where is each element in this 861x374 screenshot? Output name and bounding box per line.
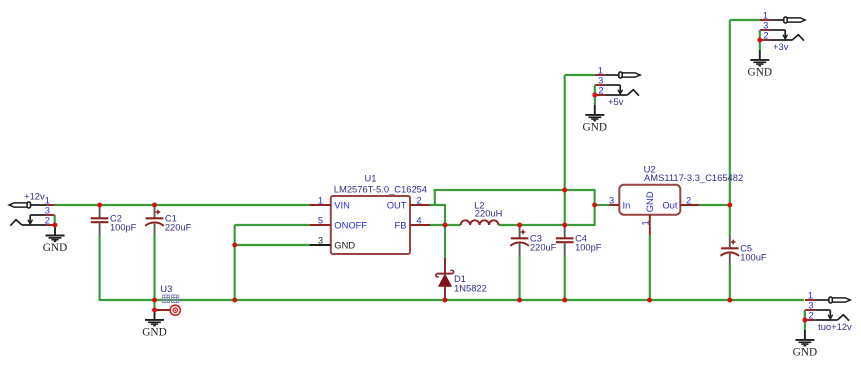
junction U1 gnd tee bbox=[232, 243, 237, 248]
junction left vertical rail bbox=[232, 298, 237, 303]
inductor L2 220uH bbox=[461, 220, 499, 225]
junction bypass crossing bbox=[562, 188, 567, 193]
ground at U3 pad bbox=[142, 310, 166, 338]
svg-text:5: 5 bbox=[318, 214, 323, 225]
connector J-out barrel jack bbox=[805, 297, 850, 321]
wire C1 bottom through rail to pad node bbox=[153, 235, 155, 310]
U1 pin 5 ONOFF stub bbox=[310, 224, 331, 226]
J-5v pin 1 stub bbox=[595, 74, 605, 76]
junction C4 rail bbox=[562, 298, 567, 303]
J-in pin 2 stub and contact bbox=[46, 224, 54, 226]
svg-text:AMS1117-3.3_C165482: AMS1117-3.3_C165482 bbox=[644, 172, 743, 183]
wire C4 bottom to rail bbox=[564, 255, 566, 300]
junction C4 top bbox=[562, 223, 567, 228]
svg-text:2: 2 bbox=[763, 30, 768, 41]
wire left vertical down to ground rail bbox=[234, 225, 236, 300]
J-5v pin 2 stub and contact bbox=[595, 94, 605, 96]
J-in pin 1 stub bbox=[46, 204, 54, 206]
svg-text:GND: GND bbox=[748, 66, 772, 78]
U1 pin 1 VIN stub bbox=[310, 204, 331, 206]
U1 pin 3 GND stub bbox=[310, 244, 331, 246]
wire +5v horizontal to jack bbox=[565, 74, 595, 76]
svg-text:100pF: 100pF bbox=[575, 243, 602, 253]
J-5v pin 3 stub and switch bracket bbox=[595, 84, 605, 86]
svg-text:2: 2 bbox=[598, 85, 603, 96]
wire OUT riser bbox=[434, 189, 436, 205]
svg-text:GND: GND bbox=[334, 240, 355, 251]
wire pin3-pin2 of J-3v bbox=[759, 30, 761, 40]
svg-text:VIN: VIN bbox=[334, 200, 350, 211]
svg-text:GND: GND bbox=[644, 191, 655, 212]
svg-text:100pF: 100pF bbox=[110, 223, 137, 233]
ground at +5v jack bbox=[583, 105, 607, 133]
svg-text:220uH: 220uH bbox=[475, 207, 503, 218]
wire tuo+12v jack pin2 to ground bbox=[804, 310, 806, 330]
wire OUT jog down to FB node bbox=[430, 205, 446, 225]
svg-text:OUT: OUT bbox=[387, 200, 407, 211]
svg-text:LM2576T-5.0_C16254: LM2576T-5.0_C16254 bbox=[334, 183, 427, 194]
U1 pin 2 OUT stub bbox=[410, 204, 430, 206]
svg-text:1: 1 bbox=[640, 220, 651, 225]
wire +5v vertical through C4 bbox=[564, 75, 566, 225]
wire U2 GND down to rail bbox=[649, 235, 651, 300]
capacitor C1 220uF bbox=[145, 205, 164, 235]
diode D1 1N5822 schottky bbox=[436, 258, 454, 300]
ground at tuo+12v jack bbox=[793, 330, 817, 358]
svg-text:GND: GND bbox=[583, 121, 607, 133]
junction C1 rail bbox=[152, 298, 157, 303]
svg-text:2: 2 bbox=[416, 195, 421, 206]
wire U2 Out to +3v node bbox=[700, 204, 730, 206]
wire right vertical into U2 In bbox=[594, 189, 596, 226]
wire pin3-pin2 of J-out bbox=[804, 310, 806, 320]
svg-text:GND: GND bbox=[43, 242, 67, 254]
junction C2 top bbox=[97, 203, 102, 208]
J-out pin 3 stub and switch bracket bbox=[805, 309, 815, 311]
op-amp U1 LM2576T-5.0 regulator body bbox=[331, 196, 410, 254]
wire C2 bottom to rail bbox=[99, 235, 101, 301]
wire +5v jack pin2 to ground bbox=[594, 95, 596, 105]
wire +3v vertical to C5 bbox=[729, 20, 731, 235]
svg-text:220uF: 220uF bbox=[530, 243, 557, 253]
junction +3v node bbox=[727, 203, 732, 208]
junction +12v jack pin2 bbox=[53, 223, 58, 228]
junction U2 gnd rail bbox=[647, 298, 652, 303]
U2 pin 1 GND stub bbox=[649, 215, 651, 235]
svg-text:1N5822: 1N5822 bbox=[454, 283, 487, 294]
op-amp U2 AMS1117-3.3 regulator body bbox=[619, 185, 680, 215]
wire C3 bottom to rail bbox=[519, 255, 521, 300]
U1 pin 4 FB stub bbox=[410, 224, 430, 226]
U2 pin 3 In stub bbox=[609, 204, 619, 206]
svg-text:+12v: +12v bbox=[24, 190, 45, 201]
junction C3 rail bbox=[517, 298, 522, 303]
svg-text:4: 4 bbox=[416, 215, 421, 226]
svg-text:2: 2 bbox=[686, 195, 691, 206]
U2 pin 2 Out stub bbox=[680, 204, 699, 206]
svg-text:Out: Out bbox=[662, 199, 678, 210]
junction U2 In node bbox=[592, 203, 597, 208]
wire ONOFF to left vertical bbox=[235, 224, 310, 226]
svg-text:220uF: 220uF bbox=[165, 223, 192, 233]
J-out pin 1 stub bbox=[805, 299, 815, 301]
junction C3 top bbox=[517, 223, 522, 228]
svg-text:In: In bbox=[623, 199, 631, 210]
wire C5 bottom to rail bbox=[729, 265, 731, 300]
J-3v pin 3 stub and switch bracket bbox=[760, 29, 770, 31]
svg-text:100uF: 100uF bbox=[740, 253, 767, 263]
junction +3v jack pin2 bbox=[757, 38, 762, 43]
U3 label hanpan (solder pad) bbox=[162, 295, 178, 303]
svg-text:2: 2 bbox=[808, 310, 813, 321]
svg-text:tuo+12v: tuo+12v bbox=[818, 321, 852, 332]
junction FB node bbox=[443, 223, 448, 228]
J-in pin 3 stub and switch bracket bbox=[46, 214, 54, 216]
wire to U2 In pin bbox=[595, 204, 609, 206]
wire D1 top from FB node bbox=[444, 225, 446, 260]
capacitor C3 220uF bbox=[510, 225, 529, 255]
junction D1 rail bbox=[443, 298, 448, 303]
test pad U3 bbox=[155, 305, 181, 315]
wire +3v horizontal to jack bbox=[730, 19, 760, 21]
junction +5v jack pin2 bbox=[592, 93, 597, 98]
svg-text:GND: GND bbox=[793, 346, 817, 358]
ground at +12v jack bbox=[43, 226, 67, 254]
svg-text:ONOFF: ONOFF bbox=[334, 220, 367, 231]
wire pin3-pin2 of J-in bbox=[54, 215, 56, 225]
wire pin3-pin2 of J-5v bbox=[594, 85, 596, 95]
wire +3v jack pin2 to ground bbox=[759, 40, 761, 50]
connector J-3v barrel jack bbox=[760, 17, 805, 41]
junction tuo jack pin2 bbox=[802, 318, 807, 323]
wire top bypass run bbox=[434, 189, 595, 191]
ground at +3v jack bbox=[748, 50, 772, 78]
wire U1 GND pin to left vertical bbox=[235, 244, 310, 246]
svg-text:U3: U3 bbox=[160, 283, 172, 294]
svg-text:+5v: +5v bbox=[608, 96, 624, 107]
svg-text:GND: GND bbox=[142, 326, 166, 338]
J-3v pin 2 stub and contact bbox=[760, 39, 770, 41]
svg-text:3: 3 bbox=[318, 235, 323, 246]
capacitor C2 100pF bbox=[91, 205, 109, 235]
wire FB node to L2 bbox=[430, 224, 461, 226]
wire +12v net: jack pin1 to VIN bbox=[55, 204, 310, 206]
svg-text:U1: U1 bbox=[365, 173, 377, 184]
svg-text:3: 3 bbox=[609, 195, 614, 206]
junction C5 rail bbox=[727, 298, 732, 303]
svg-text:FB: FB bbox=[395, 220, 407, 231]
capacitor C4 100pF bbox=[556, 225, 574, 255]
J-3v pin 1 stub bbox=[760, 19, 770, 21]
svg-text:1: 1 bbox=[318, 194, 323, 205]
wire L2 to output node bbox=[499, 224, 595, 226]
connector J-5v barrel jack bbox=[595, 72, 640, 96]
svg-text:2: 2 bbox=[45, 215, 50, 226]
J-out pin 2 stub and contact bbox=[805, 319, 815, 321]
svg-text:+3v: +3v bbox=[773, 41, 789, 52]
wire bottom ground rail bbox=[100, 299, 804, 301]
capacitor C5 100uF bbox=[721, 235, 740, 265]
junction pad node bbox=[152, 308, 157, 313]
connector J-in barrel jack bbox=[9, 202, 54, 226]
junction C1 top bbox=[152, 203, 157, 208]
